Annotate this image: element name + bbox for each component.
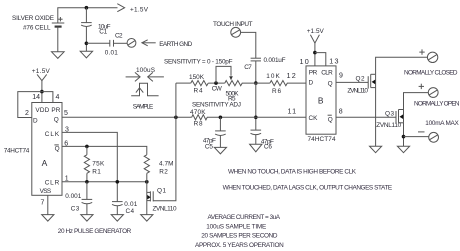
capacitor C4 0.01 <box>112 201 138 215</box>
node C1/C2 junction <box>85 42 89 46</box>
ground Q1 <box>141 215 153 222</box>
battery BT1 silver oxide cell <box>52 17 65 27</box>
ground VSS <box>42 215 54 222</box>
node C4 column on CLR line <box>116 180 120 184</box>
node R1 top <box>85 145 89 149</box>
svg-text:0.001uF: 0.001uF <box>264 57 286 64</box>
node C1 top junction <box>85 6 89 10</box>
svg-text:CLK: CLK <box>45 131 60 138</box>
ground C5 <box>214 147 226 154</box>
capacitor C2 0.01 <box>105 33 123 57</box>
ground Q2 <box>370 146 382 153</box>
svg-text:470K: 470K <box>190 109 206 116</box>
svg-text:12: 12 <box>287 71 297 80</box>
svg-text:10: 10 <box>300 57 310 66</box>
power +1.5V flip-flop B <box>307 28 325 66</box>
svg-text:4.7M: 4.7M <box>159 160 174 167</box>
svg-text:ZVNL110: ZVNL110 <box>376 122 401 129</box>
wire Q3 drain to NO terminal <box>404 93 429 110</box>
svg-text:20 Hz PULSE GENERATOR: 20 Hz PULSE GENERATOR <box>58 228 132 235</box>
wire to minus terminal <box>404 136 429 138</box>
svg-text:SAMPLE: SAMPLE <box>133 104 154 111</box>
svg-text:CLR: CLR <box>45 180 60 187</box>
node C5 junction <box>219 116 223 120</box>
svg-text:A: A <box>42 158 48 168</box>
wire battery bottom <box>57 27 59 52</box>
svg-text:VDD PR: VDD PR <box>35 107 60 114</box>
wire sample/clock line L2 <box>62 116 306 118</box>
wire PR pin 4 branch <box>42 92 53 103</box>
svg-text:SENSITIVITY = 0 - 150pF: SENSITIVITY = 0 - 150pF <box>164 59 233 66</box>
resistor R6 10K <box>266 73 287 95</box>
label SILVER OXIDE #76 CELL <box>12 15 54 31</box>
wire D pin 2 tie-high loop <box>18 92 42 118</box>
svg-text:B: B <box>318 96 324 106</box>
svg-text:2: 2 <box>25 110 29 117</box>
svg-text:C5: C5 <box>205 143 213 150</box>
capacitor C3 0.001 <box>65 193 92 212</box>
terminal earth ground <box>127 39 136 48</box>
op-amp U1B flip-flop B box <box>306 66 336 134</box>
svg-text:SILVER OXIDE: SILVER OXIDE <box>12 15 54 22</box>
svg-text:10K: 10K <box>266 73 280 80</box>
node touch/data junction <box>254 81 258 85</box>
wire pin 6 Qbar line <box>62 146 147 154</box>
node PR/CLR junction <box>313 51 317 55</box>
ground C3 <box>81 215 93 222</box>
svg-text:C1: C1 <box>99 29 107 36</box>
svg-text:14: 14 <box>32 94 40 101</box>
wire C2 to earth terminal <box>114 42 128 44</box>
svg-text:0.001: 0.001 <box>65 193 81 200</box>
svg-text:R2: R2 <box>159 169 168 176</box>
svg-text:Q2: Q2 <box>356 75 365 82</box>
wire C5 drop <box>219 117 221 130</box>
svg-text:VSS: VSS <box>40 188 52 195</box>
terminal normally closed + <box>419 49 438 62</box>
svg-text:APPROX. 5 YEARS OPERATION: APPROX. 5 YEARS OPERATION <box>195 242 284 249</box>
svg-text:75K: 75K <box>92 160 105 167</box>
svg-text:20 SAMPLES PER SECOND: 20 SAMPLES PER SECOND <box>201 232 278 239</box>
sample pulse annotation 100uS <box>126 67 164 111</box>
wire riser from L1 to Q1 gate <box>153 83 176 201</box>
svg-text:EARTH GND: EARTH GND <box>159 41 192 48</box>
svg-text:0.01: 0.01 <box>124 201 137 208</box>
svg-text:CK: CK <box>309 115 319 122</box>
capacitor C6 47pF <box>251 130 274 151</box>
transistor Q3 ZVNL110 <box>376 110 403 130</box>
capacitor C1 10uF <box>81 23 110 36</box>
svg-text:7: 7 <box>41 199 45 206</box>
svg-text:Q1: Q1 <box>157 188 166 195</box>
svg-text:74HCT74: 74HCT74 <box>4 147 30 154</box>
terminal minus <box>418 132 439 142</box>
svg-text:150K: 150K <box>189 74 205 81</box>
wire rail to C1 <box>85 8 87 23</box>
svg-text:WHEN TOUCHED, DATA LAGS CLK, O: WHEN TOUCHED, DATA LAGS CLK, OUTPUT CHAN… <box>223 184 393 191</box>
svg-text:ZVNL110: ZVNL110 <box>153 206 177 213</box>
wire touch input to C7 <box>241 32 256 58</box>
wire C6 to ground <box>255 135 257 144</box>
svg-text:8: 8 <box>339 108 343 115</box>
ground C1 <box>80 51 92 58</box>
terminal normally open + <box>419 84 439 98</box>
wire CLR pin 13 branch <box>315 53 326 66</box>
svg-text:74HCT74: 74HCT74 <box>308 136 336 143</box>
flip-flop A internal labels <box>33 107 61 195</box>
node R1 bottom / C3 top <box>85 180 89 184</box>
svg-text:Q3: Q3 <box>385 111 394 118</box>
svg-text:+1.5V: +1.5V <box>32 68 51 75</box>
wire Q2 source to ground <box>375 88 377 147</box>
wire pin 9 to Q2 gate <box>336 81 368 83</box>
svg-text:5: 5 <box>64 110 68 117</box>
wire touch node down through CK line <box>255 83 257 130</box>
svg-text:TOUCH INPUT: TOUCH INPUT <box>213 21 253 28</box>
svg-text:R8: R8 <box>194 121 203 128</box>
svg-text:Q: Q <box>328 80 333 87</box>
node touch column on CK line <box>254 116 258 120</box>
svg-text:Q: Q <box>55 146 60 153</box>
wire junction to C2 <box>86 42 109 44</box>
wire VSS pin 7 <box>47 195 49 214</box>
node R4/pot junction <box>214 81 218 85</box>
svg-text:R6: R6 <box>272 88 281 95</box>
ground battery <box>52 52 65 59</box>
ground C6 <box>250 144 262 152</box>
svg-text:CW: CW <box>212 86 223 93</box>
svg-text:D: D <box>309 79 314 86</box>
svg-text:#76 CELL: #76 CELL <box>23 25 51 32</box>
wire C3 to ground <box>86 204 88 215</box>
svg-text:PR: PR <box>309 70 318 77</box>
wire Q2 drain to NC terminal <box>376 57 428 74</box>
wire pin 3 CLK to C4 column <box>62 132 117 201</box>
svg-text:C3: C3 <box>71 206 80 213</box>
svg-text:Q: Q <box>328 117 333 124</box>
resistor R1 75K <box>84 146 105 181</box>
flip-flop B internal labels <box>309 70 334 124</box>
power +1.5V flip-flop A <box>32 68 51 102</box>
wire C1 bottom to ground <box>85 27 87 51</box>
wire C3 drop <box>86 182 88 199</box>
wire battery top to +1.5V rail <box>58 8 118 23</box>
svg-text:C4: C4 <box>126 208 135 215</box>
transistor Q1 ZVNL110 <box>147 182 177 215</box>
svg-text:100mA MAX: 100mA MAX <box>425 120 459 127</box>
node riser on CK line <box>174 116 178 120</box>
op-amp U1A flip-flop A box <box>32 103 62 196</box>
svg-text:Q: Q <box>54 117 59 124</box>
svg-text:D: D <box>33 118 38 125</box>
wire Q3 source down <box>403 123 405 146</box>
svg-text:11: 11 <box>288 106 298 115</box>
wire data line L1 <box>176 82 306 84</box>
wire C4 to ground <box>116 206 118 215</box>
arrow EARTH GND <box>142 40 193 48</box>
svg-text:C2: C2 <box>115 33 123 40</box>
svg-text:100uS SAMPLE TIME: 100uS SAMPLE TIME <box>206 223 266 230</box>
potentiometer R5 500K sensitivity adj <box>192 66 242 108</box>
svg-text:R1: R1 <box>92 168 101 175</box>
terminal TOUCH INPUT <box>213 21 253 37</box>
resistor R8 470K <box>190 109 207 128</box>
power arrow +1.5V right <box>117 4 148 14</box>
ground Q3 <box>397 146 409 153</box>
flip-flop B pin numbers <box>288 57 344 116</box>
ground C4 <box>111 215 123 222</box>
wire pin 1 CLR line <box>62 181 147 183</box>
svg-text:9: 9 <box>339 73 343 80</box>
node VDD junction <box>40 90 44 94</box>
svg-text:SENSITIVITY ADJ: SENSITIVITY ADJ <box>192 102 241 109</box>
svg-text:0.01: 0.01 <box>105 49 118 56</box>
svg-text:13: 13 <box>329 57 339 66</box>
svg-text:ZVNL110: ZVNL110 <box>347 87 368 94</box>
wire pin 8 to Q3 gate <box>336 116 396 118</box>
flip-flop A pin numbers <box>25 94 69 206</box>
svg-text:C6: C6 <box>264 144 272 151</box>
svg-text:+1.5V: +1.5V <box>130 6 149 13</box>
svg-text:CLR: CLR <box>321 70 333 77</box>
svg-text:4: 4 <box>56 94 60 101</box>
svg-text:WHEN NO TOUCH, DATA IS HIGH BE: WHEN NO TOUCH, DATA IS HIGH BEFORE CLK <box>228 169 357 176</box>
svg-text:AVERAGE CURRENT = 3uA: AVERAGE CURRENT = 3uA <box>208 214 281 221</box>
resistor R4 150K <box>189 74 208 95</box>
svg-text:NORMALLY CLOSED: NORMALLY CLOSED <box>404 69 458 76</box>
resistor R2 4.7M <box>144 155 173 182</box>
node Q1 drain on CLR line <box>145 180 149 184</box>
svg-text:+1.5V: +1.5V <box>307 28 325 35</box>
svg-text:C7: C7 <box>244 64 252 71</box>
node Q3 source / minus terminal <box>402 135 406 139</box>
svg-text:NORMALLY OPEN: NORMALLY OPEN <box>414 100 460 107</box>
capacitor C5 47pF <box>203 131 226 150</box>
transistor Q2 ZVNL110 <box>347 74 375 94</box>
wire C5 to ground <box>219 136 221 148</box>
svg-text:R4: R4 <box>194 87 203 94</box>
wire C7 bottom to touch node <box>255 61 257 83</box>
capacitor C7 0.001uF <box>244 57 285 71</box>
